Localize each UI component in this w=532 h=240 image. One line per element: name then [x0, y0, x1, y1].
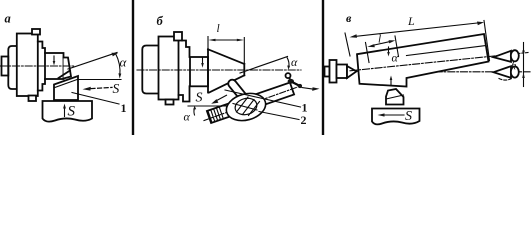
holder v: [372, 109, 420, 125]
svg-text:α: α: [120, 55, 128, 70]
tool post cylinder: [228, 80, 248, 103]
lower center cone: [494, 66, 512, 78]
slide bar: [207, 83, 294, 124]
chuck bottom tab: [29, 96, 37, 102]
svg-text:а: а: [5, 12, 11, 26]
slide axis: [204, 87, 299, 121]
alpha line ext: [240, 57, 288, 74]
driver bar: [330, 60, 337, 83]
feed arrow b: [216, 95, 227, 101]
h dim arrows: [523, 43, 525, 87]
alpha base line: [71, 79, 121, 81]
l dim v ticks: [366, 36, 399, 63]
dashed feed arrow: [91, 87, 112, 88]
svg-text:S: S: [196, 91, 203, 106]
taper cut face: [59, 71, 71, 79]
l dim line: [213, 39, 240, 41]
centerline: [0, 65, 75, 67]
bottom tab b: [166, 100, 174, 105]
driver square: [337, 65, 348, 79]
divider line 2: [322, 0, 324, 135]
svg-text:L: L: [407, 14, 415, 28]
spindle stub: [2, 57, 9, 76]
handwheel outer: [223, 89, 268, 124]
jaw steps top: [38, 42, 45, 54]
svg-text:α: α: [392, 51, 399, 65]
wheel spokes: [233, 97, 260, 116]
cutter inner line: [386, 95, 404, 99]
slide hatch end: [208, 107, 223, 123]
jaw steps top b: [182, 41, 190, 58]
chuck body: [17, 34, 38, 97]
cone right face: [243, 64, 245, 75]
cutter v: [386, 89, 404, 105]
alpha upper line: [68, 53, 117, 70]
faceplate: [8, 46, 16, 89]
svg-text:l: l: [217, 23, 220, 35]
left center cone: [347, 66, 357, 78]
alpha arrow up v: [390, 79, 392, 85]
workpiece axis: [350, 53, 528, 71]
lower center body: [511, 66, 519, 77]
upper center body: [511, 50, 519, 61]
cone top edge: [208, 49, 244, 64]
cone bottom edge: [209, 75, 244, 92]
svg-text:в: в: [346, 11, 352, 25]
L left ext: [345, 33, 350, 56]
leader to 2 b: [259, 112, 299, 120]
svg-text:б: б: [157, 14, 164, 28]
top tab b: [174, 32, 182, 41]
l dim ticks: [208, 37, 244, 63]
alpha base line bottom: [188, 105, 226, 107]
jaw steps bottom b: [179, 86, 190, 101]
down arrow on workpiece: [53, 56, 55, 62]
handwheel inner: [233, 96, 258, 117]
faceplate b: [142, 46, 158, 94]
alpha arrow down v: [388, 47, 390, 53]
centerline b: [137, 69, 301, 71]
machine axis left: [325, 70, 353, 72]
alpha arc bottom: [193, 108, 196, 115]
svg-text:S: S: [113, 81, 120, 96]
crank knob: [286, 73, 291, 78]
upper center cone: [494, 51, 512, 62]
cutter edge line: [54, 79, 78, 88]
jaw steps bottom: [38, 79, 45, 91]
cone large face: [207, 49, 209, 92]
crank arm: [290, 78, 292, 82]
cone surface line: [407, 46, 487, 56]
svg-text:α: α: [291, 55, 298, 69]
down arrow b: [202, 58, 204, 65]
crank grip: [298, 84, 302, 88]
cutter (broad): [54, 76, 78, 100]
svg-text:S: S: [405, 109, 412, 124]
workpiece neck b: [190, 57, 208, 86]
svg-text:l: l: [378, 34, 381, 46]
chuck body b: [159, 37, 179, 100]
L dim line: [354, 23, 479, 37]
spindle stub v: [325, 67, 330, 77]
arrow in holder v: [384, 114, 404, 116]
l dim v line: [372, 41, 391, 45]
divider line: [132, 0, 134, 135]
machine axis right: [410, 71, 530, 73]
svg-text:2: 2: [301, 113, 307, 127]
leader to 1 b: [225, 90, 301, 107]
up arrow in holder: [64, 108, 66, 117]
chuck top tab: [32, 29, 40, 35]
alpha arc: [116, 54, 121, 76]
leader to 1: [72, 93, 119, 105]
svg-text:α: α: [184, 110, 191, 124]
workpiece cylinder: [45, 53, 64, 79]
svg-text:1: 1: [121, 101, 127, 115]
lower dashed arc: [499, 79, 511, 81]
rotation arrow: [302, 88, 314, 90]
workpiece tip: [64, 58, 72, 79]
workpiece v: [357, 34, 489, 87]
L right tick / end face: [484, 21, 490, 61]
svg-text:S: S: [68, 104, 76, 120]
alpha arc b: [287, 58, 289, 67]
tool holder: [43, 101, 93, 122]
